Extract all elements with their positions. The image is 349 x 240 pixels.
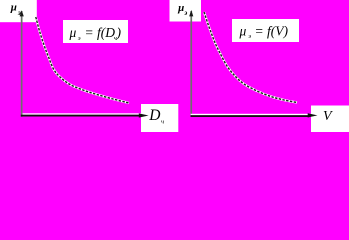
left graph: x-axis line bbox=[21, 115, 140, 117]
svg-text:μ: μ bbox=[69, 25, 77, 40]
left graph: y-axis line bbox=[21, 11, 23, 117]
right graph: curve dashed dark line bbox=[204, 12, 297, 103]
svg-text:): ) bbox=[116, 25, 122, 40]
left graph: x-axis arrowhead bbox=[139, 113, 149, 117]
svg-text:D: D bbox=[148, 107, 160, 124]
svg-text:= f(V): = f(V) bbox=[255, 23, 289, 38]
right graph: x-axis white highlight bbox=[191, 114, 317, 115]
svg-text:μ: μ bbox=[10, 2, 17, 14]
right graph: y-axis line bbox=[190, 11, 192, 117]
svg-text:э: э bbox=[78, 35, 81, 42]
right graph: y-axis arrowhead bbox=[189, 10, 193, 17]
left graph: curve dashed dark line bbox=[36, 17, 129, 103]
right graph: curve white band bbox=[204, 12, 297, 103]
right graph: white remnant box behind mu label bbox=[170, 0, 202, 22]
left graph: white remnant box behind D axis label bbox=[141, 104, 178, 132]
svg-text:μ: μ bbox=[239, 23, 247, 38]
svg-text:μ: μ bbox=[177, 2, 184, 14]
right graph: x-axis arrowhead bbox=[308, 113, 318, 117]
left graph: curve white band bbox=[36, 17, 129, 103]
svg-text:э: э bbox=[183, 9, 187, 17]
left graph: white remnant box behind formula label bbox=[63, 20, 128, 43]
right graph: white remnant box behind V axis label bbox=[311, 106, 349, 133]
svg-text:э: э bbox=[248, 33, 251, 40]
right graph: x-axis line bbox=[191, 115, 309, 117]
svg-text:э: э bbox=[17, 9, 21, 17]
left graph: x-axis white highlight bbox=[23, 113, 142, 114]
svg-text:ч: ч bbox=[161, 118, 164, 125]
right graph: white remnant box behind formula label bbox=[232, 19, 299, 42]
left graph: white remnant box behind mu label bbox=[0, 0, 37, 22]
svg-text:= f(D: = f(D bbox=[85, 25, 116, 40]
svg-text:V: V bbox=[323, 109, 333, 124]
left graph: y-axis arrowhead bbox=[20, 10, 24, 16]
